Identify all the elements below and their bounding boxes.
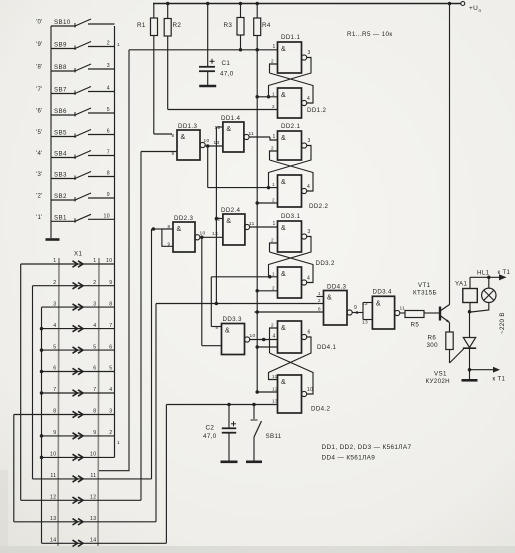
svg-text:3: 3: [308, 50, 311, 56]
op-amp U1 (NAND latch upper gate DD1.1): [278, 42, 302, 73]
svg-text:11: 11: [400, 306, 406, 312]
op-amp U4 (NAND latch upper gate DD4.1): [278, 321, 302, 353]
svg-text:VS1: VS1: [434, 371, 447, 378]
switch SB3: [51, 178, 76, 180]
wire R3 lead down: [240, 35, 242, 50]
wire V2 riser row12 to DD1.3: [140, 152, 142, 501]
svg-text:КТ315Б: КТ315Б: [413, 290, 437, 297]
svg-text:&: &: [376, 300, 381, 307]
svg-text:1: 1: [93, 258, 96, 264]
svg-text:'4': '4': [36, 151, 43, 157]
svg-text:DD2.1: DD2.1: [281, 123, 300, 130]
svg-text:DD2.2: DD2.2: [309, 203, 328, 210]
capacitor C1: [199, 66, 215, 68]
svg-text:'2': '2': [36, 194, 43, 200]
svg-text:SB6: SB6: [54, 108, 67, 115]
svg-text:13: 13: [362, 320, 368, 326]
wire to SB11: [253, 405, 255, 420]
svg-text:12: 12: [362, 301, 368, 307]
svg-text:'8': '8': [36, 65, 43, 71]
connector X1 row 6: [42, 371, 115, 373]
junction SB11 on reset line: [252, 403, 256, 407]
wire DD3.4 tied input link: [362, 303, 364, 320]
switch SB9: [51, 48, 76, 50]
svg-text:10: 10: [200, 231, 206, 237]
svg-text:2: 2: [109, 430, 112, 436]
switch SB8: [51, 70, 76, 72]
svg-text:C2: C2: [206, 425, 215, 432]
connector X1 row 3: [42, 306, 115, 308]
junction HL1 top: [487, 276, 491, 280]
svg-text:6: 6: [109, 344, 112, 350]
svg-text:5: 5: [93, 344, 96, 350]
svg-text:8: 8: [53, 409, 56, 415]
junction DD1.2 input with R4 bus wire: [267, 95, 271, 99]
output bubble DD1.4: [244, 134, 249, 139]
svg-text:9: 9: [93, 430, 96, 436]
wire R2 to DD1.2 input: [168, 109, 278, 111]
svg-text:R1: R1: [137, 22, 146, 29]
wire V1 riser X1 to DD1.1: [99, 50, 129, 471]
svg-text:6: 6: [53, 366, 56, 372]
svg-text:2: 2: [93, 280, 96, 286]
op-amp U3b (NAND latch lower gate DD3.2): [278, 267, 302, 298]
output bubble DD1.2: [302, 100, 307, 105]
svg-text:R3: R3: [224, 22, 233, 29]
junction R4 bus at DD4.2 (bus end): [255, 390, 259, 394]
svg-text:SB4: SB4: [54, 151, 67, 158]
op-amp DD1.4 (NAND gate): [223, 122, 244, 152]
ground under SB11: [246, 460, 262, 463]
wire DD3.3 input net to DD3.2 input: [211, 276, 269, 278]
connector X1 row 9: [42, 435, 115, 437]
wire DD1.4 output toward DD2.1: [249, 136, 270, 138]
emitter VT1: [441, 316, 450, 323]
output bubble DD2.2: [302, 188, 307, 193]
svg-text:8: 8: [107, 171, 110, 177]
junction common bus row 4: [40, 327, 44, 331]
svg-text:300: 300: [427, 342, 439, 349]
output bubble DD1.3: [200, 142, 205, 147]
svg-text:SB9: SB9: [54, 42, 67, 49]
wire switch bus to ground: [50, 221, 52, 238]
switch SB1: [51, 220, 76, 222]
wire HL1 top lead: [488, 277, 490, 288]
junction R3 on DD1.1 input net: [239, 48, 243, 52]
svg-text:6: 6: [93, 366, 96, 372]
wire R6 down: [449, 350, 451, 364]
svg-text:SB3: SB3: [54, 172, 67, 179]
svg-text:4: 4: [273, 334, 276, 340]
svg-text:8: 8: [172, 133, 175, 138]
svg-text:&: &: [225, 328, 230, 335]
svg-text:SB2: SB2: [54, 193, 67, 200]
svg-text:YA1: YA1: [455, 281, 467, 288]
svg-text:8: 8: [109, 301, 112, 307]
svg-text:4: 4: [93, 323, 96, 329]
wire R4 bus to DD3.2 input 2: [257, 290, 277, 292]
svg-text:4: 4: [53, 323, 56, 329]
op-amp DD1.3 (NAND gate): [177, 130, 200, 160]
svg-text:&: &: [281, 325, 286, 332]
junction common bus row 5: [40, 348, 44, 352]
output bubble DD4.3: [347, 310, 352, 315]
ground under switches: [46, 238, 60, 241]
svg-text:C1: C1: [222, 60, 231, 67]
wire X1 left link row1-row12: [20, 264, 22, 500]
svg-text:11: 11: [249, 131, 255, 137]
wire DD2.3 input loop: [162, 229, 173, 246]
cross-coupling X latch DD4.1/DD4.2: [270, 353, 314, 394]
svg-text:КУ202Н: КУ202Н: [426, 378, 451, 385]
op-amp DD3.3 (NAND gate): [222, 324, 245, 355]
svg-text:DD1.3: DD1.3: [178, 123, 197, 130]
wire DD3.1 input 2 hook: [270, 243, 278, 252]
svg-text:1: 1: [273, 221, 276, 227]
wire V3 to DD2.3 inputs: [152, 228, 162, 230]
svg-text:R2: R2: [173, 22, 182, 29]
junction common bus row 6: [40, 370, 44, 374]
svg-text:13: 13: [90, 516, 96, 522]
junction W1 with pin12 vertical: [215, 302, 219, 306]
svg-text:DD4 — К561ЛА9: DD4 — К561ЛА9: [322, 455, 376, 462]
wire DD1.1 input 2 hook: [270, 64, 278, 73]
resistor R6: [446, 332, 453, 350]
svg-text:2: 2: [318, 298, 321, 303]
wire HL1 bottom lead: [471, 303, 489, 313]
svg-text:SB11: SB11: [266, 433, 282, 440]
wire DD2.3 output down to DD3.3 input: [201, 237, 203, 345]
wire DD2.4 output to DD3.1 input: [250, 226, 278, 228]
svg-text:&: &: [177, 226, 182, 233]
wire V2 to DD1.3 input 9: [141, 151, 177, 153]
wire reset line to DD4.2 input: [166, 404, 277, 406]
wire C1 to ground: [207, 71, 209, 85]
svg-text:2: 2: [107, 41, 110, 47]
svg-text:2: 2: [272, 285, 275, 290]
output bubble DD2.1: [302, 143, 307, 148]
junction on DD3.3 output wire: [262, 338, 266, 342]
svg-text:13: 13: [50, 516, 56, 522]
wire YA1 bottom lead: [469, 303, 471, 312]
svg-text:12: 12: [90, 495, 96, 501]
junction VS1 cathode node: [468, 368, 472, 372]
wire rail to R3: [240, 4, 242, 18]
junction on pin12 vertical: [215, 217, 219, 221]
svg-text:8: 8: [216, 325, 219, 330]
electromagnet YA1: [463, 289, 478, 303]
svg-text:'9': '9': [36, 42, 43, 48]
svg-text:3: 3: [93, 301, 96, 307]
wire thyristor gate: [450, 349, 465, 364]
svg-text:п: п: [479, 8, 482, 13]
op-amp DD4.3 (3-input NAND gate): [324, 291, 348, 326]
svg-text:3: 3: [109, 409, 112, 415]
svg-text:&: &: [281, 271, 286, 278]
svg-text:4: 4: [307, 96, 310, 102]
junction DD1.3 output to DD2.2 branch: [206, 144, 210, 148]
svg-text:1: 1: [272, 91, 275, 96]
svg-text:12: 12: [272, 387, 278, 392]
wire DD3.3 input 8: [211, 326, 221, 328]
junction common bus row 7: [40, 391, 44, 395]
wire DD3.3 output to DD4.1 input: [249, 339, 277, 341]
junction DD3.4 tied inputs: [356, 311, 359, 314]
svg-text:'3': '3': [36, 172, 43, 178]
svg-text:4: 4: [109, 387, 112, 393]
junction rail C1: [206, 2, 210, 6]
junction common bus row 9: [40, 434, 44, 438]
svg-text:'5': '5': [36, 130, 43, 136]
output bubble DD1.1: [302, 55, 307, 60]
svg-text:7: 7: [107, 150, 110, 156]
connector X1 row 10: [42, 456, 115, 458]
svg-text:9: 9: [109, 280, 112, 286]
connector X1 row 5: [42, 349, 115, 351]
svg-text:DD4.2: DD4.2: [311, 406, 330, 413]
junction rail R3: [239, 2, 243, 6]
svg-text:10: 10: [50, 452, 56, 458]
svg-text:11: 11: [50, 473, 56, 479]
wire to T1 bottom: [470, 369, 494, 371]
resistor R5: [405, 311, 424, 318]
wire to C2: [228, 405, 230, 429]
svg-text:1: 1: [273, 44, 276, 50]
svg-text:6: 6: [107, 129, 110, 135]
wire X1 left common bus row3-row14: [41, 307, 43, 543]
wire X1 left link row8-row13: [13, 415, 15, 522]
ground at VS1: [462, 379, 478, 382]
svg-text:'7': '7': [36, 87, 43, 93]
connector X1 row 14: [42, 542, 167, 544]
junction on R4 bus at DD2.2: [255, 201, 259, 205]
switch SB6: [51, 114, 76, 116]
svg-text:&: &: [281, 179, 286, 186]
svg-text:11: 11: [272, 374, 278, 379]
svg-text:7: 7: [93, 387, 96, 393]
wire rail to R4: [256, 4, 258, 19]
cross-coupling X latch DD1.1/DD1.2: [270, 73, 314, 103]
output bubble DD3.2: [302, 280, 307, 285]
svg-text:DD2.4: DD2.4: [221, 207, 240, 214]
svg-text:SB7: SB7: [54, 87, 67, 94]
svg-text:7: 7: [109, 323, 112, 329]
junction R4 bus at DD4.1: [255, 345, 259, 349]
svg-text:10: 10: [307, 387, 313, 393]
resistor R2: [164, 19, 171, 37]
wire V4 riser row13 to W1: [155, 304, 157, 522]
svg-text:4: 4: [107, 86, 110, 92]
svg-text:8: 8: [318, 307, 321, 312]
svg-text:14: 14: [90, 538, 96, 544]
junction DD2.3 output branch down: [200, 236, 204, 240]
svg-text:2: 2: [272, 104, 275, 109]
svg-text:DD3.4: DD3.4: [373, 289, 392, 296]
wire DD2.4 input 12 stub: [216, 218, 223, 220]
svg-text:2: 2: [271, 238, 274, 243]
svg-text:9: 9: [107, 192, 110, 198]
op-amp U1b (NAND latch lower gate DD1.2): [278, 88, 302, 118]
connector X1 row 12: [21, 499, 141, 501]
op-amp U4b (NAND latch lower gate DD4.2): [278, 375, 302, 413]
svg-text:47,0: 47,0: [220, 71, 234, 78]
svg-text:2: 2: [271, 146, 274, 151]
lamp HL1: [482, 288, 496, 302]
svg-text:5: 5: [109, 366, 112, 372]
svg-text:DD4.3: DD4.3: [327, 284, 346, 291]
wire R1 lead down to DD1.3 input: [153, 36, 155, 135]
connector X1 row 2: [33, 285, 115, 287]
wire DD2.1 input 2 hook: [270, 151, 278, 160]
svg-text:&: &: [281, 46, 286, 53]
wire R4 bus to DD4.3 input 3: [255, 311, 324, 313]
switch SB5: [51, 136, 76, 138]
switch SB7: [51, 93, 76, 95]
svg-text:SB1: SB1: [54, 214, 67, 221]
wire rail to R2: [167, 4, 169, 19]
svg-text:+U: +U: [469, 5, 478, 12]
svg-text:X1: X1: [74, 251, 82, 258]
svg-text:10: 10: [250, 333, 256, 339]
connector X1 row 7: [42, 392, 115, 394]
svg-text:'6': '6': [36, 109, 43, 115]
svg-text:3: 3: [308, 138, 311, 144]
svg-text:13: 13: [272, 399, 278, 404]
wire DD3.4 input 13: [363, 319, 372, 321]
output bubble DD2.3: [195, 235, 200, 240]
wire DD1.3 output to DD2.2 input: [208, 187, 269, 189]
wire switch left bus: [50, 26, 52, 222]
wire R4 bus to DD4.2 input: [257, 391, 277, 393]
wire rail to C1: [207, 4, 209, 67]
svg-text:&: &: [281, 92, 286, 99]
wire SB11 to ground: [253, 437, 255, 461]
svg-text:11: 11: [90, 473, 96, 479]
svg-text:SB5: SB5: [54, 130, 67, 137]
wire DD4.1 input 2 hook: [270, 328, 278, 353]
junction DD2.2 input: [267, 186, 271, 190]
svg-text:1: 1: [273, 134, 276, 140]
wire V5 vertical from row 14: [165, 405, 167, 544]
junction R4 bus at DD4.3: [255, 310, 259, 314]
op-amp DD2.4 (NAND gate): [223, 214, 245, 245]
wire rail to R1: [153, 4, 155, 19]
wire VS1 anode: [469, 312, 471, 338]
svg-text:14: 14: [50, 538, 56, 544]
svg-text:3: 3: [107, 63, 110, 69]
svg-text:1: 1: [117, 42, 120, 48]
svg-text:12: 12: [215, 125, 221, 131]
switch SB10: [51, 25, 76, 27]
svg-text:DD3.3: DD3.3: [223, 316, 242, 323]
svg-text:DD4.1: DD4.1: [317, 344, 336, 351]
svg-text:13: 13: [212, 231, 218, 237]
svg-text:2: 2: [272, 198, 275, 203]
wire DD1.1 input pin1 from V1: [129, 49, 278, 51]
junction common bus row 10: [40, 456, 44, 460]
svg-text:4: 4: [307, 184, 310, 190]
wire to ground: [469, 370, 471, 379]
output bubble DD3.4: [395, 310, 400, 315]
op-amp DD2.3 (NAND gate): [173, 222, 195, 252]
op-amp U3 (NAND latch upper gate DD3.1): [278, 221, 302, 252]
svg-text:DD2.3: DD2.3: [174, 215, 193, 222]
wire R4 bus to DD2.2 input 2: [257, 202, 277, 204]
wire VS1 cathode down: [469, 348, 471, 370]
svg-text:~220 В: ~220 В: [499, 312, 506, 334]
svg-text:&: &: [226, 126, 231, 133]
wire DD1.3 output to DD1.4 input: [205, 145, 223, 147]
svg-text:DD3.1: DD3.1: [281, 213, 300, 220]
svg-text:8: 8: [168, 224, 171, 229]
wire DD3.4 input 12: [363, 302, 372, 304]
svg-text:R1...R5 — 10к: R1...R5 — 10к: [347, 31, 392, 38]
junction YA1/HL1 bottom node: [468, 310, 472, 314]
svg-text:&: &: [327, 295, 332, 302]
svg-text:&: &: [281, 135, 286, 142]
svg-text:DD1, DD2, DD3 — К561ЛА7: DD1, DD2, DD3 — К561ЛА7: [322, 444, 412, 451]
wire DD1.4 pin12 vertical down: [215, 127, 217, 303]
wire R4 pull-up bus down left of latches: [256, 36, 258, 393]
switch SB4: [51, 157, 76, 159]
connector X1 row 11: [33, 478, 152, 480]
switch SB2: [51, 199, 76, 201]
wire X1 left link row2-row11: [32, 286, 34, 479]
connector X1 row 1: [21, 263, 115, 265]
wire R4 bus to DD1.2 input: [257, 96, 268, 98]
svg-text:R5: R5: [411, 322, 420, 329]
wire DD4.3 output to DD3.4: [352, 312, 363, 314]
svg-text:3: 3: [53, 301, 56, 307]
svg-text:1: 1: [318, 291, 321, 296]
wire R4 bus to DD4.1 input 3: [257, 346, 277, 348]
output bubble DD2.4: [244, 224, 249, 229]
wire DD3.4 output to R5: [400, 312, 405, 314]
junction DD2.3 feed with V3: [152, 227, 156, 231]
wire W1 DD4.3 input 2: [216, 303, 323, 305]
ground under C1: [199, 85, 216, 88]
svg-text:&: &: [181, 134, 186, 141]
svg-text:R4: R4: [262, 22, 271, 29]
svg-text:DD1.2: DD1.2: [307, 107, 326, 114]
wire VT1 collector to +U rail: [449, 4, 451, 305]
arrow to T1 top: [499, 274, 507, 280]
connector X1 row 8: [14, 414, 115, 416]
svg-text:к Т1: к Т1: [498, 270, 511, 276]
wire DD2.3 output to DD2.4 input: [200, 236, 223, 238]
output bubble DD4.1: [302, 334, 307, 339]
wire +U power rail: [153, 3, 461, 5]
svg-text:10: 10: [104, 213, 110, 219]
svg-text:DD3.2: DD3.2: [316, 260, 335, 267]
wire R1 to DD1.3 input pin 8: [154, 133, 172, 135]
svg-text:к Т1: к Т1: [493, 377, 506, 383]
thyristor VS1: [463, 338, 475, 348]
junction R4 bus with DD1.1 input wire: [255, 48, 259, 52]
svg-text:'1': '1': [36, 215, 43, 221]
svg-text:1: 1: [53, 258, 56, 264]
wire into DD3.3 lower input: [202, 345, 222, 347]
resistor R3: [237, 18, 244, 36]
svg-text:1: 1: [272, 271, 275, 276]
connector X1 body rails: [58, 258, 59, 546]
transistor VT1: [439, 307, 441, 321]
wire switch output bus down to X1 row 10: [114, 26, 116, 457]
wire R5 to VT1 base: [424, 312, 439, 314]
op-amp U2b (NAND latch lower gate DD2.2): [278, 175, 302, 207]
wire C2 to ground: [228, 433, 230, 461]
wire R2 lead down: [167, 36, 169, 110]
